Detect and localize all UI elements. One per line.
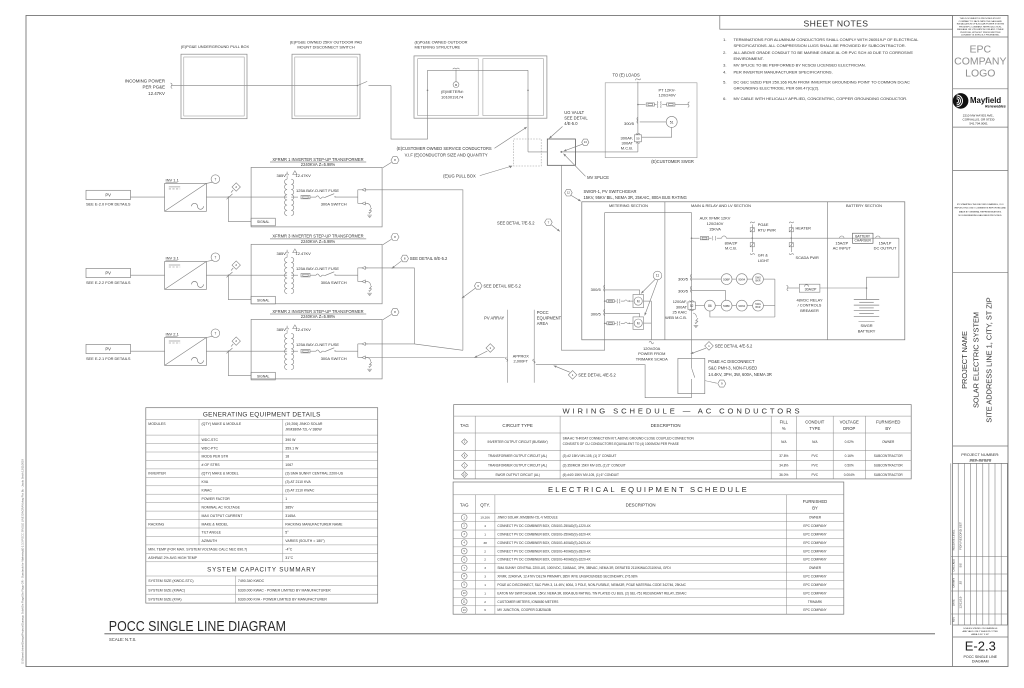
- svg-text:BKR: BKR: [756, 306, 761, 309]
- tag circle 11 customer meters: [641, 271, 662, 316]
- svg-text:REV: REV: [952, 617, 956, 623]
- svg-text:SWGR-1, PV SWITCHGEAR: SWGR-1, PV SWITCHGEAR: [584, 189, 637, 194]
- svg-text:POWER FROM: POWER FROM: [638, 351, 665, 356]
- svg-text:MV CABLE WITH HELICALLY APPLIE: MV CABLE WITH HELICALLY APPLIED, CONCENT…: [734, 96, 908, 101]
- aux transformer fused tap: [691, 236, 722, 240]
- svg-text:GFI &: GFI &: [758, 253, 769, 258]
- svg-text:XFRMR 1 INVERTER STEP-UP TRANS: XFRMR 1 INVERTER STEP-UP TRANSFORMER: [272, 157, 363, 162]
- wire MV output feeder from XFRMR 2 to array boundary: [366, 357, 508, 361]
- sheet notes numbered list: [723, 37, 919, 101]
- signal box XFRMR 2: [228, 351, 276, 380]
- svg-text:3: 3: [484, 566, 486, 570]
- svg-text:-4°C: -4°C: [285, 548, 293, 552]
- drawing title POCC SINGLE LINE DIAGRAM: [104, 618, 935, 642]
- breaker 300AF 300AT M.C.B. in customer swgr: [621, 133, 642, 152]
- PV array block PV 2.1: [86, 344, 131, 360]
- wire incoming MV feed: [171, 83, 341, 88]
- svg-text:(E)CUSTOMER SWGR: (E)CUSTOMER SWGR: [651, 159, 694, 164]
- svg-text:12/11/19: 12/11/19: [958, 596, 962, 608]
- wire battery charger to battery: [866, 238, 899, 298]
- transformer box XFRMR 2 INVERTER STEP-UP TRANSFORMER: [251, 309, 382, 379]
- svg-text:DESCRIPTION: DESCRIPTION: [651, 423, 681, 428]
- breaker 30A/2P 48VDC relay controls: [787, 284, 867, 313]
- svg-text:300/5: 300/5: [678, 288, 689, 293]
- svg-text:POCC: POCC: [537, 310, 549, 315]
- tag hexagon 8 transformer XFRMR 1: [383, 157, 399, 168]
- svg-text:MV JUNCTION, COOPER DJ825A3B: MV JUNCTION, COOPER DJ825A3B: [497, 608, 551, 612]
- svg-text:4.: 4.: [723, 70, 726, 75]
- label SWGR-1 PV switchgear: [584, 189, 687, 200]
- svg-text:SYSTEM SIZE (KWDC-STC): SYSTEM SIZE (KWDC-STC): [148, 579, 193, 583]
- svg-text:6: 6: [484, 608, 486, 612]
- wire PV to inverter INV 2.1: [131, 350, 165, 352]
- svg-text:POCC SINGLE LINE: POCC SINGLE LINE: [964, 655, 998, 659]
- svg-text:TERMINATIONS FOR ALUMINUM COND: TERMINATIONS FOR ALUMINUM CONDUCTORS SHA…: [734, 37, 920, 42]
- project name vertical text: [960, 297, 994, 422]
- svg-text:1: 1: [484, 591, 486, 595]
- svg-text:300/5: 300/5: [678, 277, 689, 282]
- svg-text:34.8%: 34.8%: [779, 464, 788, 468]
- svg-text:TRIMARK SCADA: TRIMARK SCADA: [636, 357, 668, 362]
- svg-text:1067: 1067: [285, 463, 293, 467]
- svg-text:MODULES: MODULES: [148, 422, 166, 426]
- battery SWGR BATTERY: [854, 298, 879, 334]
- svg-text:6330.000 KWAC - POWER LIMITED: 6330.000 KWAC - POWER LIMITED BY MANUFAC…: [238, 589, 331, 593]
- svg-text:%: %: [782, 426, 786, 431]
- svg-text:/ CONTROLS: / CONTROLS: [798, 303, 822, 308]
- svg-text:CHECKED: CHECKED: [952, 559, 956, 572]
- svg-text:PG&E: PG&E: [758, 222, 769, 227]
- svg-text:MV SPLICE: MV SPLICE: [587, 175, 609, 180]
- node MV splice point: [560, 151, 562, 153]
- svg-text:7: 7: [215, 331, 217, 335]
- svg-text:POCC SINGLE LINE DIAGRAM: POCC SINGLE LINE DIAGRAM: [109, 618, 286, 634]
- potential transformer PT 12KV-120/240V: [638, 87, 690, 107]
- svg-text:SEE DETAIL 6/E-5.2: SEE DETAIL 6/E-5.2: [483, 284, 521, 289]
- svg-text:120/240V: 120/240V: [707, 221, 724, 226]
- svg-text:XFRMR 3 INVERTER STEP-UP TRANS: XFRMR 3 INVERTER STEP-UP TRANSFORMER: [272, 234, 363, 239]
- svg-text:125A BAY-O-NET FUSE: 125A BAY-O-NET FUSE: [296, 188, 339, 193]
- svg-text:(6) #4/0 15KV MV-105, (1) 6" C: (6) #4/0 15KV MV-105, (1) 6" CONDUIT: [563, 473, 619, 477]
- svg-text:EPC COMPANY: EPC COMPANY: [803, 532, 827, 536]
- svg-text:SEE DETAIL 8/E-5.2: SEE DETAIL 8/E-5.2: [410, 256, 448, 261]
- sheet number E-2.3: [964, 639, 998, 664]
- svg-text:OWNER: OWNER: [882, 440, 895, 444]
- svg-text:FURNISHED: FURNISHED: [803, 499, 827, 504]
- svg-text:INCOMING POWER: INCOMING POWER: [125, 78, 165, 83]
- svg-text:2: 2: [484, 549, 486, 553]
- inverter INV 1.1: [165, 178, 207, 212]
- svg-text:ENVIRONMENT.: ENVIRONMENT.: [734, 56, 764, 61]
- table system capacity summary: [146, 567, 378, 604]
- svg-text:1: 1: [285, 497, 287, 501]
- UG vault box: [547, 139, 575, 165]
- svg-text:(3) 350MCM 15KV MV-105, (1) 5": (3) 350MCM 15KV MV-105, (1) 5" CONDUIT: [563, 464, 626, 468]
- svg-text:DC GEC SIZED PER 250.166 RUN F: DC GEC SIZED PER 250.166 RUN FROM INVERT…: [734, 80, 911, 85]
- transformer winding symbol XFRMR 1: [277, 171, 312, 216]
- svg-text:0.004%: 0.004%: [844, 473, 855, 477]
- svg-text:EPC COMPANY: EPC COMPANY: [803, 591, 827, 595]
- svg-text:N/A: N/A: [781, 440, 787, 444]
- svg-text:VOLTAGE: VOLTAGE: [840, 419, 859, 424]
- customer switchgear box (E)CUSTOMER SWGR: [605, 83, 697, 164]
- metering structure (E)PG&E owned outdoor metering structure: [414, 39, 547, 118]
- svg-text:15KV, 95KV BIL, NEMA 3R, 25KAI: 15KV, 95KV BIL, NEMA 3R, 25KAIC, 800A BU…: [584, 195, 687, 200]
- svg-text:TRANSFORMER OUTPUT CIRCUIT (AL: TRANSFORMER OUTPUT CIRCUIT (AL): [488, 464, 547, 468]
- svg-text:ALL ABOVE GRADE CONDUIT TO BE: ALL ABOVE GRADE CONDUIT TO BE MARINE GRA…: [734, 50, 914, 55]
- svg-text:SHEET NOTES: SHEET NOTES: [804, 18, 869, 28]
- svg-text:385V: 385V: [285, 505, 294, 509]
- svg-text:PV: PV: [105, 346, 111, 351]
- relay circle SWG BKR row 2: [747, 300, 763, 311]
- wire MV feeder vault to switchgear: [561, 165, 604, 350]
- svg-text:SEE E-2.2 FOR DETAILS: SEE E-2.2 FOR DETAILS: [86, 280, 131, 285]
- label incoming power per PG&E 12.47KV: [125, 78, 165, 96]
- svg-text:5.: 5.: [723, 80, 726, 85]
- tag diamond 2 conduit INV 2.1: [231, 337, 240, 347]
- tag hexagon 12 switchgear: [565, 189, 582, 201]
- PV array block PV 1.1: [86, 190, 131, 206]
- tag diamond 1 feeder circuit: [474, 344, 495, 358]
- svg-text:120/240V: 120/240V: [659, 93, 676, 98]
- tag hexagon 7 see detail 7/E-5.2: [497, 219, 560, 232]
- svg-text:RELEASE LEVEL: RELEASE LEVEL: [952, 529, 956, 550]
- svg-text:COMPANY TO FACILITATE THE SALE: COMPANY TO FACILITATE THE SALE AND: [959, 20, 1003, 23]
- tag hexagon 6 see detail 6/E-5.2: [462, 283, 522, 299]
- svg-text:1: 1: [484, 532, 486, 536]
- tag circle 7 inverter output INV 1.1: [206, 175, 219, 184]
- svg-text:TYPE: TYPE: [809, 426, 820, 431]
- signal box XFRMR 1: [228, 196, 276, 225]
- svg-text:S&C PMH-3, NON-FUSED: S&C PMH-3, NON-FUSED: [708, 366, 757, 371]
- svg-text:PER PG&E: PER PG&E: [143, 85, 166, 90]
- svg-text:(3) #2 15KV MV-105, (1) 3" CON: (3) #2 15KV MV-105, (1) 3" CONDUIT: [563, 454, 617, 458]
- svg-text:EPC COMPANY: EPC COMPANY: [803, 541, 827, 545]
- switch 300A XFRMR 2: [321, 348, 358, 361]
- surge arrester and ground XFRMR 1: [367, 203, 372, 217]
- svg-text:15KVA: 15KVA: [709, 227, 721, 232]
- svg-text:SWGR OUTPUT CIRCUIT (AL): SWGR OUTPUT CIRCUIT (AL): [495, 473, 540, 477]
- boundary line PV array: [484, 310, 507, 383]
- svg-text:METERING SECTION: METERING SECTION: [609, 203, 648, 208]
- svg-text:DATE: DATE: [952, 599, 956, 606]
- svg-text:G:\Shared drives\Design\Proje: G:\Shared drives\Design\Projects\Durango…: [21, 458, 25, 664]
- svg-text:13: 13: [584, 140, 588, 144]
- wire relay group loop closure: [710, 279, 775, 317]
- svg-text:300/5: 300/5: [591, 287, 602, 292]
- relay 51 in customer swgr: [640, 116, 678, 137]
- svg-text:PVC: PVC: [812, 454, 819, 458]
- svg-text:30A/2P: 30A/2P: [805, 288, 817, 292]
- svg-text:POWER FACTOR: POWER FACTOR: [202, 497, 231, 501]
- left margin plot-stamp rotated text: [21, 458, 25, 664]
- switch 300A XFRMR 1: [321, 194, 358, 207]
- svg-text:EPC: EPC: [970, 44, 992, 56]
- svg-text:SYSTEM SIZE (KWAC): SYSTEM SIZE (KWAC): [148, 589, 185, 593]
- UG pull box dashed (E)UG PULL BOX: [443, 139, 541, 178]
- label MV SPLICE with leader: [563, 153, 609, 180]
- svg-text:19,206: 19,206: [480, 516, 490, 520]
- svg-text:86: 86: [708, 304, 712, 308]
- svg-text:SCADA PWR: SCADA PWR: [796, 255, 820, 260]
- utility meter (E)METER# 1010019174: [441, 68, 464, 99]
- tag diamond 2 conduit INV 3.1: [231, 261, 240, 271]
- svg-text:EPC COMPANY: EPC COMPANY: [803, 575, 827, 579]
- svg-text:0.50%: 0.50%: [845, 464, 854, 468]
- svg-text:INV 3.1: INV 3.1: [166, 256, 180, 261]
- label TO (E) LOADS: [613, 73, 641, 81]
- revision table grid: [951, 463, 1008, 625]
- svg-text:INV 2.1: INV 2.1: [166, 332, 180, 337]
- svg-text:# OF STRS: # OF STRS: [202, 463, 221, 467]
- svg-text:6330.000 KVA - POWER LIMITED B: 6330.000 KVA - POWER LIMITED BY MANUFACT…: [238, 597, 327, 601]
- wire MV collector from XFRMR 1: [366, 190, 463, 350]
- fused branch GFI and LIGHT: [750, 238, 770, 264]
- Mayfield Renewables logo: [953, 93, 1006, 125]
- svg-text:12.47KV: 12.47KV: [148, 91, 165, 96]
- svg-text:90/94: 90/94: [738, 304, 745, 308]
- current transformer 300/5 metering circuit 2: [591, 309, 605, 316]
- svg-text:BATTERY SECTION: BATTERY SECTION: [846, 203, 882, 208]
- svg-text:ASHRAE 2% AVG HIGH TEMP: ASHRAE 2% AVG HIGH TEMP: [148, 556, 197, 560]
- svg-text:SUBCONTRACTOR: SUBCONTRACTOR: [874, 454, 904, 458]
- label 120V/20A power from Trimark SCADA: [636, 346, 668, 362]
- PT fused branch meter 2: [604, 321, 633, 325]
- inverter INV 2.1: [165, 332, 207, 366]
- svg-text:2: 2: [484, 600, 486, 604]
- svg-text:MAIN & RELAY AND LV SECTION: MAIN & RELAY AND LV SECTION: [691, 203, 751, 208]
- svg-text:50: 50: [636, 137, 640, 141]
- svg-text:ARE VALID ONLY WHEN PLOTTED: ARE VALID ONLY WHEN PLOTTED: [962, 630, 998, 633]
- svg-text:SOLAR ELECTRIC SYSTEM: SOLAR ELECTRIC SYSTEM: [971, 312, 980, 408]
- fused branch SCADA PWR: [789, 238, 819, 260]
- svg-text:2240KVA Z=5.98%: 2240KVA Z=5.98%: [301, 314, 336, 319]
- svg-text:CONNECT PV DC COMBINER BOX, CB: CONNECT PV DC COMBINER BOX, CBI10G-400AD…: [497, 558, 591, 562]
- svg-text:BY: BY: [885, 426, 891, 431]
- svg-text:(E)UG PULL BOX: (E)UG PULL BOX: [443, 173, 476, 178]
- svg-text:WIRING SCHEDULE — AC CONDUCTOR: WIRING SCHEDULE — AC CONDUCTORS: [562, 407, 802, 416]
- svg-text:TRIMARK: TRIMARK: [808, 600, 823, 604]
- svg-text:52: 52: [690, 304, 694, 308]
- title block disclaimer text top: [957, 18, 1004, 37]
- svg-text:M.C.B.: M.C.B.: [621, 146, 633, 151]
- svg-text:2240KVA Z=5.98%: 2240KVA Z=5.98%: [301, 239, 336, 244]
- svg-text:EPC COMPANY: EPC COMPANY: [803, 608, 827, 612]
- svg-text:PURPOSE, WITHOUT PRIOR WRITTEN: PURPOSE, WITHOUT PRIOR WRITTEN: [960, 32, 1001, 34]
- PV array block PV 3.1: [86, 268, 131, 284]
- svg-text:KWAC: KWAC: [202, 489, 213, 493]
- svg-text:0.02%: 0.02%: [845, 440, 854, 444]
- svg-text:MADE BY GENERAL REPRESENTATIVE: MADE BY GENERAL REPRESENTATIVES.: [959, 210, 1002, 213]
- svg-text:AREA: AREA: [537, 321, 548, 326]
- fused branch PG&E RTU PWR: [750, 222, 776, 239]
- svg-text:N/A: N/A: [812, 440, 818, 444]
- breaker 15A/1P DC output: [874, 236, 897, 251]
- svg-text:WDC-STC: WDC-STC: [202, 438, 219, 442]
- battery charger circuit 15A/2P AC input: [833, 236, 899, 251]
- svg-text:BS: BS: [958, 563, 962, 567]
- svg-text:RACKING: RACKING: [148, 522, 164, 526]
- bay-o-net fuse 125A XFRMR 2: [291, 342, 339, 353]
- svg-text:385V: 385V: [277, 251, 287, 256]
- switch 300A XFRMR 3: [321, 272, 358, 285]
- current transformer 300/5 metering circuit 1: [591, 285, 605, 292]
- svg-text:EPC COMPANY: EPC COMPANY: [803, 583, 827, 587]
- svg-text:DC OUTPUT: DC OUTPUT: [874, 246, 897, 251]
- tag hexagon 8 see detail 8/E-5.2: [392, 255, 449, 269]
- project number block: [961, 452, 999, 463]
- svg-text:UG VAULT: UG VAULT: [564, 110, 584, 115]
- svg-text:GROUNDING ELECTRODE, PER 690.4: GROUNDING ELECTRODE, PER 690.47(C)(2).: [734, 86, 820, 91]
- svg-text:31°C: 31°C: [285, 556, 293, 560]
- svg-text:JKM380M-72L-V 380W: JKM380M-72L-V 380W: [285, 428, 322, 432]
- svg-text:RTU PWR: RTU PWR: [758, 227, 776, 232]
- svg-text:AZIMUTH: AZIMUTH: [202, 539, 218, 543]
- svg-text:INSTALLATION OF A SOLAR POWER: INSTALLATION OF A SOLAR POWER SYSTEM: [957, 23, 1004, 26]
- svg-text:TRANSFORMER OUTPUT CIRCUIT (AL: TRANSFORMER OUTPUT CIRCUIT (AL): [488, 454, 547, 458]
- svg-text:125A BAY-O-NET FUSE: 125A BAY-O-NET FUSE: [296, 342, 339, 347]
- wire service entrance jog under disconnect: [391, 70, 428, 139]
- aux transformer label AUX XFMR 12KV 120/240V 15KVA: [700, 215, 731, 231]
- svg-text:(E)CUSTOMER OWNED SERVICE COND: (E)CUSTOMER OWNED SERVICE CONDUCTORS: [397, 146, 492, 151]
- svg-text:NO ENGINEERING HAS BEEN PROVID: NO ENGINEERING HAS BEEN PROVIDED.: [959, 214, 1003, 217]
- label PG&E AC disconnect: [708, 359, 772, 377]
- svg-text:2: 2: [484, 558, 486, 562]
- label APPROX 2000FT: [513, 353, 530, 363]
- svg-text:300A SWITCH: 300A SWITCH: [321, 280, 347, 285]
- wire MV collector from XFRMR 2 top elbow: [366, 344, 463, 350]
- wire inverter to transformer with conduit tag 2 INV 3.1: [206, 272, 287, 277]
- transformer box XFRMR 3 INVERTER STEP-UP TRANSFORMER: [251, 234, 382, 304]
- tag hexagon 8 transformer XFRMR 3: [383, 234, 399, 245]
- svg-text:MAX OUTPUT CURRENT: MAX OUTPUT CURRENT: [202, 514, 244, 518]
- svg-text:7490.340 KWDC: 7490.340 KWDC: [238, 579, 265, 583]
- tag circle 7 inverter output INV 3.1: [206, 253, 219, 262]
- PT fused branch meter 1: [604, 299, 633, 303]
- wire metering loop top: [427, 70, 529, 152]
- svg-text:80A/2P: 80A/2P: [725, 240, 738, 245]
- svg-text:OWNER: OWNER: [809, 566, 822, 570]
- svg-text:COMPANY: COMPANY: [954, 56, 1006, 68]
- svg-text:(3) SMA SUNNY CENTRAL 2200-US: (3) SMA SUNNY CENTRAL 2200-US: [285, 472, 343, 476]
- svg-text:M: M: [637, 299, 640, 303]
- svg-text:DESCRIPTION: DESCRIPTION: [626, 503, 656, 508]
- svg-text:TAG: TAG: [460, 503, 469, 508]
- svg-text:541.704.0061: 541.704.0061: [969, 121, 988, 125]
- svg-text:SMA SUNNY CENTRAL 2200-US, 100: SMA SUNNY CENTRAL 2200-US, 1000VDC, 3165…: [497, 566, 670, 570]
- svg-text:EATON MV SWITCHGEAR, 15KV, NEM: EATON MV SWITCHGEAR, 15KV, NEMA 3R, 800A…: [497, 591, 687, 595]
- svg-text:DRAWN: DRAWN: [952, 578, 956, 588]
- svg-text:15A/1P: 15A/1P: [879, 240, 892, 245]
- svg-text:12: 12: [567, 191, 571, 195]
- tag circle 7 inverter output INV 2.1: [206, 329, 219, 338]
- svg-text:300/5: 300/5: [591, 311, 602, 316]
- disconnect box (E)PG&E owned 25KV outdoor pad mount disconnect switch: [290, 39, 363, 118]
- svg-text:CONSENT IS STRICTLY PROHIBITED: CONSENT IS STRICTLY PROHIBITED.: [961, 35, 1000, 37]
- svg-text:SWGR: SWGR: [860, 323, 872, 328]
- svg-text:18: 18: [285, 455, 289, 459]
- svg-text:SMA AC THROAT CONNECTION KIT,: SMA AC THROAT CONNECTION KIT, ABOVE GROU…: [563, 436, 695, 440]
- svg-text:E-2.3: E-2.3: [965, 639, 996, 654]
- svg-text:SEE DETAIL 4/E-5.2: SEE DETAIL 4/E-5.2: [715, 344, 753, 349]
- svg-text:38: 38: [483, 541, 487, 545]
- svg-text:SEE DETAIL 4/E-5.2: SEE DETAIL 4/E-5.2: [578, 373, 616, 378]
- svg-text:REFLECTING ONLY COMMENTS REPOR: REFLECTING ONLY COMMENTS REPORTED AND: [955, 207, 1007, 210]
- svg-text:RELEASE OR UTILIZATION FOR ANY: RELEASE OR UTILIZATION FOR ANY OTHER: [957, 28, 1004, 31]
- relay circle 50BF row 1: [692, 274, 732, 285]
- svg-text:MIN. TEMP (FOR MAX. SYSTEM VOL: MIN. TEMP (FOR MAX. SYSTEM VOLTAGE CALC …: [148, 548, 247, 552]
- svg-text:CONNECT PV DC COMBINER BOX, CB: CONNECT PV DC COMBINER BOX, CBI10G-250AD…: [497, 532, 591, 536]
- svg-text:CUSTOMER METERS, ION8650 METER: CUSTOMER METERS, ION8650 METERS: [497, 600, 558, 604]
- svg-text:2240KVA Z=5.98%: 2240KVA Z=5.98%: [301, 162, 336, 167]
- svg-text:SIGNAL: SIGNAL: [257, 220, 270, 224]
- svg-text:###-#####: ###-#####: [969, 458, 991, 463]
- svg-text:7: 7: [215, 255, 217, 259]
- svg-text:FILL: FILL: [780, 419, 789, 424]
- signal box XFRMR 3: [228, 275, 276, 304]
- svg-text:125A BAY-O-NET FUSE: 125A BAY-O-NET FUSE: [296, 266, 339, 271]
- meter 2 in metering section: [605, 314, 644, 330]
- title block sidebar frame: [953, 16, 1008, 667]
- svg-text:SCALES STATED ON DRAWINGS: SCALES STATED ON DRAWINGS: [963, 627, 998, 630]
- elbow connectors XFRMR 2: [358, 342, 368, 359]
- svg-text:1: 1: [484, 583, 486, 587]
- svg-text:CIRCUIT TYPE: CIRCUIT TYPE: [502, 423, 532, 428]
- svg-text:MOUNT DISCONNECT SWITCH: MOUNT DISCONNECT SWITCH: [297, 44, 355, 49]
- current transformer 300/5 relay CT 2: [678, 286, 692, 293]
- svg-text:4: 4: [484, 524, 486, 528]
- surge arrester and ground XFRMR 2: [367, 358, 372, 372]
- svg-text:SEE DETAIL 7/E-5.2: SEE DETAIL 7/E-5.2: [497, 220, 535, 225]
- svg-text:12.47KV: 12.47KV: [296, 327, 312, 332]
- svg-text:JS: JS: [958, 581, 962, 585]
- svg-text:KVA: KVA: [202, 480, 209, 484]
- svg-text:BREAKER: BREAKER: [800, 308, 819, 313]
- svg-text:1.: 1.: [723, 37, 726, 42]
- svg-text:SCALE: N.T.S.: SCALE: N.T.S.: [109, 637, 136, 642]
- svg-text:FURNISHED: FURNISHED: [876, 419, 900, 424]
- svg-text:(QTY) MAKE & MODULE: (QTY) MAKE & MODULE: [202, 422, 242, 426]
- tag hexagon 8 transformer XFRMR 2: [383, 309, 399, 320]
- breaker 80A/2P M.C.B. aux: [722, 236, 839, 251]
- svg-text:SEE E-2.1 FOR DETAILS: SEE E-2.1 FOR DETAILS: [86, 356, 131, 361]
- svg-text:SPECIFICATIONS. ALL COMPRESSIO: SPECIFICATIONS. ALL COMPRESSION LUGS SHA…: [734, 43, 906, 48]
- svg-text:MAKE & MODEL: MAKE & MODEL: [202, 522, 229, 526]
- svg-text:300/5: 300/5: [624, 121, 635, 126]
- wire relay CT2 loop: [692, 291, 726, 301]
- svg-text:4/E-5.0: 4/E-5.0: [564, 121, 578, 126]
- svg-text:PV ARRAY: PV ARRAY: [484, 315, 504, 320]
- svg-text:3: 3: [484, 575, 486, 579]
- svg-text:M: M: [637, 321, 640, 325]
- svg-text:M.C.B.: M.C.B.: [725, 246, 737, 251]
- svg-text:QTY.: QTY.: [480, 503, 490, 508]
- meter 1 in metering section: [605, 290, 644, 308]
- svg-text:PG&E AC DISCONNECT: PG&E AC DISCONNECT: [708, 359, 755, 364]
- svg-text:300A SWITCH: 300A SWITCH: [321, 356, 347, 361]
- svg-text:MODS PER STR: MODS PER STR: [202, 455, 229, 459]
- svg-text:3165A: 3165A: [285, 514, 296, 518]
- svg-text:EPC COMPANY: EPC COMPANY: [803, 549, 827, 553]
- wire MV bus U through switchgear: [605, 213, 692, 340]
- wire inverter to transformer with conduit tag 2 INV 2.1: [206, 348, 287, 353]
- svg-text:SUBCONTRACTOR: SUBCONTRACTOR: [874, 473, 904, 477]
- svg-text:CONNECT PV DC COMBINER BOX, CB: CONNECT PV DC COMBINER BOX, CBI10G-400AD…: [497, 541, 591, 545]
- svg-text:AC INPUT: AC INPUT: [833, 246, 852, 251]
- wire MV collector from XFRMR 3: [366, 268, 414, 344]
- svg-text:RACKING MANUFACTURER NAME: RACKING MANUFACTURER NAME: [285, 522, 343, 526]
- wire inverter to transformer with conduit tag 2 INV 1.1: [206, 194, 287, 199]
